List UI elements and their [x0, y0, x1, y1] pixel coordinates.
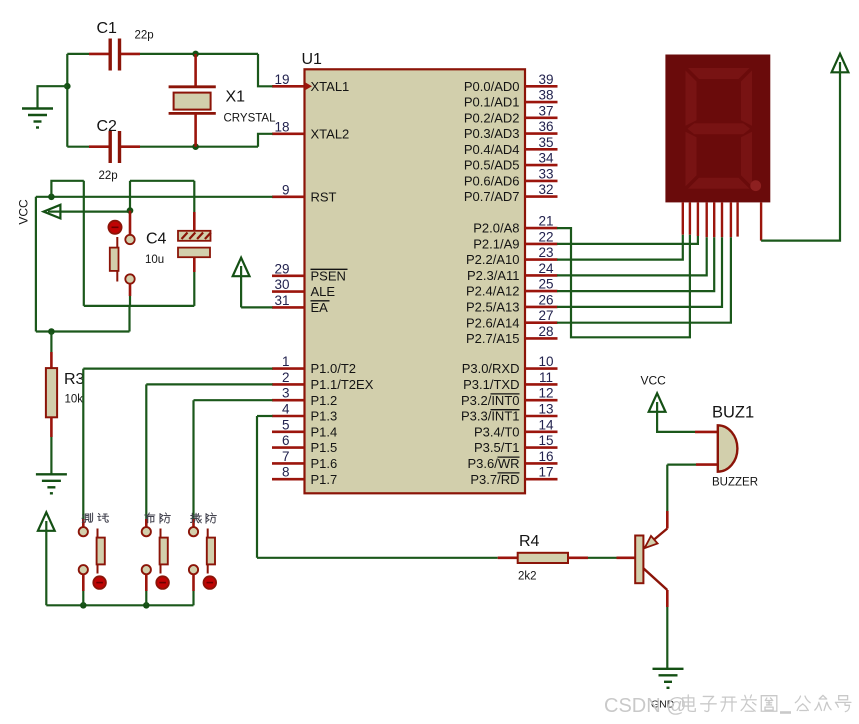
resistor R4 body — [518, 553, 568, 563]
svg-text:32: 32 — [538, 182, 553, 197]
wire display common to VCC arrow — [761, 62, 840, 241]
pin 25 stub (P2.4/A12) — [525, 290, 558, 293]
svg-text:34: 34 — [538, 151, 554, 166]
wire VCC arrow horizontal — [47, 211, 130, 213]
wire loop left vertical — [83, 181, 85, 306]
svg-text:14: 14 — [538, 417, 554, 432]
label button2 (CJK) — [145, 513, 155, 523]
power arrow EA pullup — [233, 258, 250, 277]
svg-text:1: 1 — [282, 354, 290, 369]
label button3 (CJK) — [191, 513, 202, 523]
wire to ground (top-left) — [38, 86, 68, 108]
power arrow bottom-left — [38, 512, 55, 531]
wire C1 to node A — [140, 53, 258, 55]
wire button3 bottom to common row — [192, 591, 194, 605]
svg-text:11: 11 — [539, 370, 553, 385]
svg-text:PSEN: PSEN — [311, 268, 346, 283]
pin 32 stub (P0.7/AD7) — [525, 195, 558, 198]
svg-text:VCC: VCC — [17, 199, 31, 225]
button3 top pin stub — [192, 519, 195, 527]
resistor R3 body — [46, 368, 57, 417]
wire top C1 row — [67, 53, 89, 55]
wire VCC to buzzer top — [657, 402, 695, 432]
display pin 7 — [730, 202, 732, 237]
segment d — [688, 178, 750, 189]
crystal X1 body — [174, 93, 211, 110]
svg-text:9: 9 — [282, 182, 290, 197]
transistor Q1 collector pin vertical — [666, 590, 669, 607]
svg-text:26: 26 — [538, 292, 553, 307]
svg-text:P0.6/AD6: P0.6/AD6 — [464, 174, 520, 189]
switch SW1 top terminal — [125, 235, 134, 244]
svg-text:P3.2/INT0: P3.2/INT0 — [461, 393, 520, 408]
wire R3 upper — [50, 332, 52, 353]
svg-text:R3: R3 — [64, 371, 85, 388]
wire P2.2 to display pin1 — [557, 235, 683, 260]
segment dp — [750, 180, 761, 191]
capacitor C4 top pin — [193, 212, 196, 231]
svg-text:39: 39 — [538, 72, 553, 87]
svg-text:P3.5/T1: P3.5/T1 — [474, 440, 520, 455]
pin 36 stub (P0.3/AD3) — [525, 132, 558, 135]
node switch-top junction dot — [127, 207, 134, 214]
button2 top pin stub — [145, 519, 148, 527]
svg-text:10u: 10u — [145, 254, 164, 266]
button2 actuator red dot — [156, 576, 169, 589]
node button1 bottom junction dot — [80, 602, 87, 609]
svg-text:P2.4/A12: P2.4/A12 — [466, 284, 520, 299]
svg-text:P2.5/A13: P2.5/A13 — [466, 300, 520, 315]
svg-text:C4: C4 — [146, 231, 167, 248]
crystal X1 top electrode bar — [169, 85, 216, 88]
wire button1 top vertical to pin 1 — [82, 369, 84, 519]
wire loop bottom horizontal — [84, 305, 195, 307]
resistor R3 bottom pin — [50, 417, 53, 437]
pin 15 stub (P3.5/T1) — [525, 446, 558, 449]
wire button3 top vertical to pin 3 — [192, 400, 194, 519]
capacitor C2 right pin — [121, 145, 140, 148]
7-segment display body — [665, 55, 770, 203]
transistor Q1 collector diagonal (bottom) — [643, 568, 667, 590]
segment f — [686, 71, 697, 126]
segment e — [686, 132, 697, 187]
svg-text:C2: C2 — [97, 118, 118, 135]
svg-text:P3.4/T0: P3.4/T0 — [474, 424, 520, 439]
svg-text:33: 33 — [538, 166, 553, 181]
wire pin1 row to button1 — [83, 368, 272, 370]
button1 (测试) top terminal — [79, 527, 88, 536]
pin 22 stub (P2.1/A9) — [525, 243, 558, 246]
segment b — [741, 71, 752, 126]
button2 (布防) bottom terminal — [142, 565, 151, 574]
wire bottom C2 row — [67, 146, 89, 148]
svg-text:P0.2/AD2: P0.2/AD2 — [464, 110, 520, 125]
power arrow VCC display — [832, 54, 849, 73]
button2 (布防) top terminal — [142, 527, 151, 536]
svg-text:P0.4/AD4: P0.4/AD4 — [464, 142, 520, 157]
svg-text:XTAL1: XTAL1 — [311, 79, 350, 94]
svg-text:CRYSTAL: CRYSTAL — [224, 113, 277, 125]
pin 24 stub (P2.3/A11) — [525, 274, 558, 277]
svg-text:P1.0/T2: P1.0/T2 — [311, 361, 357, 376]
crystal X1 bottom electrode bar — [169, 112, 216, 115]
crystal X1 top pin — [194, 54, 197, 87]
transistor Q1 base pin — [617, 556, 636, 559]
pin 37 stub (P0.2/AD2) — [525, 117, 558, 120]
button1 actuator red dot — [93, 576, 106, 589]
pin 2 stub (P1.1/T2EX) — [272, 383, 305, 386]
button1 contact stubs — [97, 529, 99, 538]
svg-text:5: 5 — [282, 417, 290, 432]
svg-text:2k2: 2k2 — [518, 571, 537, 583]
wire pin4 row — [257, 415, 273, 417]
overline INT1 — [491, 409, 520, 411]
button3 (撤防) bottom terminal — [189, 565, 198, 574]
wire C4 top vertical — [193, 181, 195, 212]
wire R3 to ground — [50, 437, 52, 474]
svg-text:ALE: ALE — [311, 284, 336, 299]
svg-text:16: 16 — [538, 449, 553, 464]
button1 bottom pin stub — [82, 574, 85, 591]
IC U1 body (8051 microcontroller) — [305, 69, 526, 493]
svg-text:P2.0/A8: P2.0/A8 — [473, 221, 519, 236]
switch SW1 contact stubs — [116, 237, 118, 248]
capacitor C2 plates — [108, 131, 111, 163]
svg-text:R4: R4 — [519, 533, 540, 550]
capacitor C1 plates — [108, 39, 111, 71]
wire VCC row into switch loop — [129, 181, 131, 211]
overline WR — [498, 456, 520, 458]
watermark CJK characters — [683, 695, 696, 711]
switch SW1 bottom terminal — [125, 274, 134, 283]
svg-text:6: 6 — [282, 433, 290, 448]
node A junction dot — [192, 51, 199, 58]
display common pin — [760, 202, 762, 240]
svg-text:XTAL2: XTAL2 — [311, 126, 350, 141]
svg-text:P0.0/AD0: P0.0/AD0 — [464, 79, 520, 94]
button1 top pin stub — [82, 519, 85, 527]
wire pin3 row to button3 — [194, 399, 273, 401]
wire P2.0 to display pin2 (long route) — [557, 228, 690, 337]
power arrow VCC (left-pointing) — [44, 205, 61, 219]
svg-text:3: 3 — [282, 386, 290, 401]
pin 1 stub (P1.0/T2) — [272, 367, 305, 370]
overline PSEN — [311, 268, 348, 270]
wire R4 to transistor base — [588, 557, 617, 559]
svg-text:25: 25 — [538, 277, 553, 292]
svg-text:31: 31 — [274, 293, 289, 308]
buzzer BUZ1 top pin — [695, 431, 718, 434]
svg-text:P1.6: P1.6 — [311, 456, 338, 471]
ground symbol bottom-right — [653, 668, 684, 670]
power arrow VCC buzzer — [649, 393, 666, 412]
svg-text:P2.2/A10: P2.2/A10 — [466, 252, 520, 267]
node R3 junction dot — [48, 328, 55, 335]
wire collector to ground — [666, 607, 668, 668]
wire switch top stub — [129, 211, 132, 235]
label button1 (CJK) — [82, 513, 93, 523]
svg-text:P1.3: P1.3 — [311, 409, 338, 424]
svg-text:C1: C1 — [97, 20, 118, 37]
svg-text:28: 28 — [538, 324, 553, 339]
pin 39 stub (P0.0/AD0) — [525, 85, 558, 88]
pin 8 stub (P1.7) — [272, 478, 305, 481]
svg-text:P0.7/AD7: P0.7/AD7 — [464, 189, 520, 204]
svg-text:VCC: VCC — [641, 374, 667, 388]
pin 34 stub (P0.5/AD5) — [525, 164, 558, 167]
pin 26 stub (P2.5/A13) — [525, 306, 558, 309]
svg-text:P1.5: P1.5 — [311, 440, 338, 455]
wire P2.5 to display pin6 — [557, 237, 722, 307]
svg-text:P3.1/TXD: P3.1/TXD — [463, 377, 519, 392]
pin 14 stub (P3.4/T0) — [525, 430, 558, 433]
pin 16 stub (P3.6/WR) — [525, 462, 558, 465]
pin 29 stub (PSEN) — [272, 274, 305, 277]
pin 9 stub (RST) — [272, 196, 305, 199]
XTAL1 clock input marker — [305, 82, 312, 90]
pin 33 stub (P0.6/AD6) — [525, 180, 558, 183]
pin 21 stub (P2.0/A8) — [525, 227, 558, 230]
capacitor C4 negative plate — [178, 248, 210, 258]
segment a — [688, 68, 750, 79]
wire below arrow — [45, 521, 47, 605]
svg-text:30: 30 — [274, 277, 289, 292]
node ground-branch junction dot — [64, 83, 71, 90]
wire C4 bottom vertical — [193, 272, 195, 306]
node RST junction dot — [48, 194, 55, 201]
svg-text:38: 38 — [538, 88, 553, 103]
wire EA arrow vertical — [240, 266, 242, 307]
button3 contact stubs — [207, 529, 209, 538]
pin 30 stub (ALE) — [272, 290, 305, 293]
wire emitter to buzzer — [666, 465, 668, 511]
segment c — [741, 132, 752, 187]
svg-text:P2.7/A15: P2.7/A15 — [466, 331, 520, 346]
pin 28 stub (P2.7/A15) — [525, 337, 558, 340]
pin 18 stub (XTAL2) — [272, 133, 305, 136]
button3 bottom pin stub — [192, 574, 195, 591]
resistor R4 left pin — [498, 556, 518, 559]
svg-text:23: 23 — [538, 245, 553, 260]
button3 actuator red dot — [204, 576, 217, 589]
button2 bottom pin stub — [145, 574, 148, 591]
pin 31 stub (EA) — [272, 306, 305, 309]
svg-text:P0.3/AD3: P0.3/AD3 — [464, 126, 520, 141]
svg-text:U1: U1 — [302, 51, 323, 68]
capacitor C4 positive plate (hatched) — [178, 231, 211, 241]
pin 7 stub (P1.6) — [272, 462, 305, 465]
display pin 3 — [697, 202, 699, 236]
capacitor C2 left pin — [89, 145, 109, 148]
svg-text:22p: 22p — [135, 30, 154, 42]
pin 4 stub (P1.3) — [272, 415, 305, 418]
svg-text:17: 17 — [538, 465, 553, 480]
wire C2 to node B — [140, 146, 258, 148]
wire switch bottom stub — [129, 284, 132, 296]
switch SW1 actuator red dot — [108, 221, 121, 234]
resistor R4 right pin — [568, 556, 588, 559]
wire node B to XTAL2 corner — [258, 134, 273, 147]
pin 5 stub (P1.4) — [272, 430, 305, 433]
wire pin4 to R4 — [257, 557, 498, 559]
button2 contact bar — [160, 538, 168, 565]
display pin 1 — [682, 202, 684, 234]
pin 10 stub (P3.0/RXD) — [525, 367, 558, 370]
capacitor C1 right pin — [121, 53, 140, 56]
button2 contact stubs — [160, 529, 162, 538]
transistor Q1 base bar — [635, 536, 643, 584]
wire RST up to loop top — [51, 181, 83, 197]
resistor R3 top pin — [50, 352, 53, 368]
wire RST-left vertical — [35, 197, 37, 332]
svg-text:22p: 22p — [99, 170, 118, 182]
svg-text:P1.2: P1.2 — [311, 393, 338, 408]
wire node A to XTAL1 corner — [258, 54, 273, 86]
node B junction dot — [192, 143, 199, 150]
pin 19 stub (XTAL1) — [272, 85, 305, 88]
wire P2.4 to display pin5 — [557, 237, 714, 291]
svg-text:BUZ1: BUZ1 — [712, 404, 754, 422]
buzzer BUZ1 body (half disc) — [718, 425, 738, 471]
svg-text:21: 21 — [538, 214, 553, 229]
svg-text:P0.5/AD5: P0.5/AD5 — [464, 158, 520, 173]
svg-text:7: 7 — [282, 449, 290, 464]
display pin 6 — [721, 202, 723, 237]
svg-text:2: 2 — [282, 370, 290, 385]
capacitor C1 left pin — [89, 53, 109, 56]
crystal X1 bottom pin — [194, 113, 197, 146]
wire left vertical C1-C2 — [66, 54, 68, 147]
svg-text:27: 27 — [538, 308, 553, 323]
switch SW1 contact bar — [110, 248, 119, 271]
wire button2 bottom to common row — [145, 591, 147, 605]
svg-text:37: 37 — [538, 103, 553, 118]
svg-text:X1: X1 — [226, 89, 246, 106]
display pin 2 — [689, 202, 691, 234]
wire C4 top horizontal from VCC loop — [130, 180, 194, 182]
svg-text:CSDN @: CSDN @ — [604, 695, 687, 717]
wire P2.1 to display pin3 — [557, 236, 698, 244]
wire buttons common bottom row — [46, 604, 193, 606]
display pin 4 — [706, 202, 708, 237]
svg-text:15: 15 — [538, 433, 553, 448]
pin 23 stub (P2.2/A10) — [525, 258, 558, 261]
svg-text:P1.1/T2EX: P1.1/T2EX — [311, 377, 374, 392]
svg-text:BUZZER: BUZZER — [712, 477, 758, 489]
wire pin4 down vertical — [256, 416, 258, 558]
pin 6 stub (P1.5) — [272, 446, 305, 449]
overline INT0 — [491, 393, 520, 395]
svg-text:4: 4 — [282, 402, 290, 417]
svg-text:P2.1/A9: P2.1/A9 — [473, 237, 519, 252]
wire RST row — [36, 196, 273, 198]
pin 17 stub (P3.7/RD) — [525, 478, 558, 481]
svg-text:12: 12 — [538, 386, 553, 401]
button1 contact bar — [97, 538, 105, 565]
pin 38 stub (P0.1/AD1) — [525, 101, 558, 104]
svg-text:P3.3/INT1: P3.3/INT1 — [461, 409, 520, 424]
svg-text:P3.7/RD: P3.7/RD — [470, 472, 519, 487]
svg-text:24: 24 — [538, 261, 554, 276]
button3 contact bar — [207, 538, 215, 565]
wire P2.6 to display pin7 — [557, 237, 731, 323]
svg-text:10: 10 — [538, 354, 553, 369]
ground symbol below R3 — [36, 473, 67, 475]
svg-text:RST: RST — [311, 189, 337, 204]
svg-text:29: 29 — [274, 261, 289, 276]
wire switch loop down join — [128, 306, 130, 332]
pin 13 stub (P3.3/INT1) — [525, 415, 558, 418]
overline RD — [498, 472, 520, 474]
pin 12 stub (P3.2/INT0) — [525, 399, 558, 402]
wire R3 top row — [36, 330, 130, 332]
display pin 5 — [713, 202, 715, 237]
wire P2.3 to display pin4 — [557, 237, 707, 275]
svg-text:P2.3/A11: P2.3/A11 — [467, 268, 520, 283]
svg-text:10k: 10k — [65, 394, 84, 406]
wire button1 bottom to common row — [82, 591, 84, 605]
svg-text:P1.4: P1.4 — [311, 424, 338, 439]
display pin 8 — [736, 202, 738, 236]
svg-text:P0.1/AD1: P0.1/AD1 — [464, 95, 520, 110]
wire EA pin horizontal — [241, 306, 272, 308]
svg-text:P3.0/RXD: P3.0/RXD — [462, 361, 520, 376]
svg-text:13: 13 — [538, 402, 553, 417]
transistor Q1 emitter pin vertical — [666, 511, 669, 529]
svg-text:P1.7: P1.7 — [311, 472, 338, 487]
svg-text:22: 22 — [538, 229, 553, 244]
segment g — [688, 123, 751, 134]
capacitor C4 bottom pin — [193, 257, 196, 272]
buzzer BUZ1 bottom pin — [696, 463, 718, 466]
svg-text:8: 8 — [282, 465, 290, 480]
wire pin2 row to button2 — [146, 383, 272, 385]
pin 35 stub (P0.4/AD4) — [525, 148, 558, 151]
svg-text:EA: EA — [311, 300, 329, 315]
button3 (撤防) top terminal — [189, 527, 198, 536]
wire buzzer bottom to collector — [667, 464, 696, 466]
svg-text:36: 36 — [538, 119, 553, 134]
pin 11 stub (P3.1/TXD) — [525, 383, 558, 386]
node button2 bottom junction dot — [143, 602, 150, 609]
overline EA — [311, 300, 330, 302]
svg-text:18: 18 — [274, 119, 289, 134]
wire button2 top vertical to pin 2 — [145, 384, 147, 519]
ground symbol top-left — [22, 107, 53, 109]
pin 27 stub (P2.6/A14) — [525, 321, 558, 324]
wire switch bottom to loop — [129, 296, 131, 306]
svg-text:19: 19 — [274, 72, 289, 87]
svg-text:35: 35 — [538, 135, 553, 150]
button1 (测试) bottom terminal — [79, 565, 88, 574]
svg-text:P2.6/A14: P2.6/A14 — [466, 315, 520, 330]
transistor Q1 emitter arrowhead (points into bar) — [645, 536, 658, 548]
svg-text:P3.6/WR: P3.6/WR — [467, 456, 519, 471]
pin 3 stub (P1.2) — [272, 399, 305, 402]
transistor Q1 emitter diagonal (top) — [643, 529, 667, 549]
